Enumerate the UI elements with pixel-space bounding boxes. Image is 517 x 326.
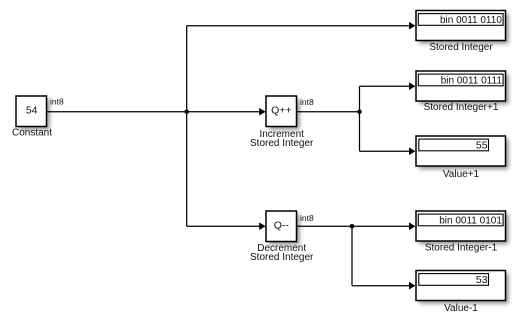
wire bottom branch to Q-- <box>187 225 260 227</box>
wire to Value+1 <box>360 150 411 152</box>
block Q-- Decrement Stored Integer <box>266 211 297 242</box>
svg-text:int8: int8 <box>300 97 314 107</box>
block Display Stored Integer-1 <box>416 211 506 241</box>
svg-text:DecrementStored Integer: DecrementStored Integer <box>250 243 314 263</box>
wire trunk vertical <box>186 26 188 227</box>
wire plus vertical <box>359 86 361 151</box>
svg-text:54: 54 <box>26 105 38 117</box>
svg-text:Q++: Q++ <box>271 105 291 117</box>
wire minus vertical <box>351 226 353 286</box>
svg-text:Stored Integer+1: Stored Integer+1 <box>424 102 499 113</box>
wire Q-- out to Stored Integer-1 <box>297 225 411 227</box>
wire to Stored Integer+1 <box>360 85 411 87</box>
block Display Stored Integer+1 <box>416 71 506 101</box>
svg-text:Value-1: Value-1 <box>444 303 478 314</box>
svg-text:Stored Integer: Stored Integer <box>429 42 493 53</box>
wire top branch to Stored Integer <box>187 25 410 27</box>
block Constant <box>16 96 47 127</box>
wire Constant to Q++ <box>47 111 261 113</box>
node main junction <box>184 109 189 114</box>
svg-text:int8: int8 <box>300 213 314 223</box>
wire to Value-1 <box>352 285 410 287</box>
svg-text:bin 0011 0110: bin 0011 0110 <box>440 15 502 26</box>
wire Q++ out <box>297 111 360 113</box>
block Display Stored Integer <box>416 11 506 41</box>
svg-text:Constant: Constant <box>12 128 52 139</box>
block Q++ Increment Stored Integer <box>266 96 297 127</box>
svg-text:Stored Integer-1: Stored Integer-1 <box>425 243 498 254</box>
block Display Value-1 <box>416 271 506 301</box>
node plus junction <box>357 109 362 114</box>
block Display Value+1 <box>416 136 506 166</box>
node minus junction <box>350 224 355 229</box>
svg-text:Value+1: Value+1 <box>443 169 480 180</box>
svg-text:int8: int8 <box>50 97 64 107</box>
svg-text:Q--: Q-- <box>274 220 290 232</box>
svg-text:bin 0011 0111: bin 0011 0111 <box>441 75 503 86</box>
svg-text:55: 55 <box>476 139 488 151</box>
svg-text:53: 53 <box>476 274 488 286</box>
svg-text:bin 0011 0101: bin 0011 0101 <box>439 215 502 226</box>
